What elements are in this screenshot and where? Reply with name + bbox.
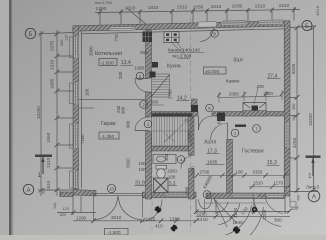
- door arc: hall north door: [200, 28, 214, 42]
- window: top wall hall left: [222, 21, 246, 26]
- fireplace Камин: [243, 103, 266, 117]
- door opening in top wall of hall: [199, 21, 217, 41]
- page edge dark line: [9, 0, 12, 235]
- vent channel block 2x2: [164, 32, 179, 43]
- circled marker 8: [203, 191, 211, 199]
- svg-text:770: 770: [114, 34, 119, 42]
- stairs top edge bar: [152, 114, 193, 117]
- circled marker 4 wc: [177, 156, 185, 164]
- svg-text:7100: 7100: [80, 134, 85, 144]
- terrace step edge line: [205, 202, 267, 204]
- svg-text:1510: 1510: [253, 181, 263, 186]
- top dimension numbers: [96, 3, 290, 12]
- level mark -1.500 boiler: [99, 59, 117, 66]
- dashed axis line vertical: [190, 18, 192, 231]
- window W2: left wall boiler room lower: [70, 83, 79, 104]
- svg-text:1080: 1080: [135, 66, 145, 71]
- svg-text:Кухня-: Кухня-: [167, 64, 182, 70]
- circled marker 1 garage door: [144, 120, 152, 128]
- top dimension chain line: [95, 10, 300, 13]
- outside arc left of porch: [140, 200, 162, 222]
- window W4: left wall garage lower: [70, 171, 79, 188]
- svg-text:2: 2: [142, 102, 145, 107]
- svg-text:100: 100: [168, 175, 176, 180]
- right inner chain 8200: [296, 27, 298, 193]
- interior wall: hall south horizontal: [152, 112, 199, 117]
- svg-text:100: 100: [85, 88, 90, 96]
- window: bottom guest room: [233, 194, 258, 198]
- door arc: hall to living room: [199, 116, 213, 130]
- exterior wall: left: [73, 26, 79, 189]
- svg-text:300: 300: [164, 153, 169, 161]
- area 13.4: [121, 60, 134, 66]
- circled marker 2 kitchen: [140, 101, 148, 109]
- circled marker 2 boiler door: [107, 30, 260, 199]
- grid bubble А right: [308, 190, 320, 202]
- exterior wall: top: [73, 21, 285, 31]
- circled marker 7: [253, 125, 261, 133]
- page left margin shading: [0, 0, 9, 235]
- svg-text:1635: 1635: [207, 159, 218, 164]
- door arc: garage: [135, 117, 149, 131]
- svg-text:Котельная: Котельная: [95, 51, 122, 57]
- black pier at hall corner: [217, 113, 225, 122]
- area 31.9: [135, 181, 148, 187]
- interior wall: hall/guest divider vertical: [227, 140, 233, 194]
- left inner chain: [56, 30, 58, 196]
- dashed axis line vertical 2: [151, 150, 153, 231]
- window: top wall hall right: [259, 20, 283, 25]
- survey marker: [252, 207, 258, 213]
- circled marker 10: [107, 184, 115, 192]
- porch arcs far bottom right: [253, 194, 283, 227]
- svg-text:1920: 1920: [167, 169, 177, 174]
- grid bubble А left: [23, 184, 33, 194]
- area 14.2: [177, 96, 190, 102]
- interior wall: garage east vertical lower: [146, 92, 152, 117]
- black pier kitchen/living: [191, 105, 198, 112]
- window W3: left wall garage upper: [70, 124, 79, 148]
- svg-text:3920: 3920: [126, 158, 131, 168]
- svg-text:2700: 2700: [168, 89, 173, 99]
- window: bottom middle wall: [166, 193, 187, 198]
- left dimension numbers: [36, 35, 69, 194]
- svg-text:10: 10: [109, 186, 115, 191]
- exterior wall: bottom right section: [206, 193, 285, 199]
- exterior wall: right: [284, 21, 290, 196]
- svg-text:980: 980: [185, 186, 190, 194]
- svg-text:±0.000: ±0.000: [205, 69, 219, 74]
- svg-text:-1.500: -1.500: [108, 230, 121, 235]
- svg-text:3150: 3150: [253, 169, 263, 174]
- second window bottom right: [267, 193, 283, 197]
- door arc: hall to guest room: [211, 123, 228, 140]
- circled marker 5 hall door: [206, 104, 214, 112]
- svg-text:Зал: Зал: [233, 58, 243, 64]
- small flue square on boiler wall: [152, 62, 158, 68]
- svg-text:2730: 2730: [200, 170, 210, 175]
- svg-text:100: 100: [236, 169, 244, 174]
- svg-text:чкз 2.100: чкз 2.100: [172, 54, 192, 59]
- exterior wall: bottom middle section: [143, 192, 197, 198]
- svg-text:8: 8: [206, 192, 209, 197]
- circled marker 9 top wall: [211, 30, 219, 38]
- stairs: [152, 113, 193, 146]
- area 27.4: [267, 74, 281, 80]
- entrance stoop bottom left: [60, 192, 73, 197]
- section mark 1 right: [306, 156, 321, 180]
- porch exit door double arcs: [198, 199, 211, 209]
- svg-text:Канал 140х140: Канал 140х140: [168, 48, 200, 53]
- svg-text:200: 200: [118, 71, 123, 79]
- fireplace dimension line: [219, 96, 282, 98]
- svg-text:Холл: Холл: [204, 140, 216, 146]
- level mark ±0.000: [204, 67, 227, 74]
- svg-text:2000: 2000: [187, 131, 192, 141]
- svg-text:Гараж: Гараж: [101, 121, 116, 127]
- left outer chain 10200: [40, 31, 42, 196]
- svg-text:Камин: Камин: [226, 79, 240, 84]
- window: right wall lower: [285, 176, 290, 190]
- left chain horizontal connectors: [38, 33, 73, 34]
- window: right wall middle: [285, 123, 290, 147]
- circled marker 1 guest door: [231, 129, 239, 137]
- interior wall: boiler/kitchen divider vertical: [146, 30, 152, 78]
- porch arc fan bottom right: [214, 199, 264, 240]
- grid bubble Б right: [302, 21, 312, 31]
- svg-text:3000: 3000: [89, 46, 94, 56]
- right outer chain 10200: [313, 27, 315, 190]
- bottom dimension numbers: [53, 203, 298, 229]
- wc fixtures: shower: [154, 178, 169, 193]
- garage double door arcs: [94, 197, 118, 220]
- svg-text:1600: 1600: [263, 91, 273, 96]
- window: top wall boiler room: [110, 26, 135, 31]
- svg-text:1: 1: [147, 122, 150, 127]
- SE corner step lines: [290, 197, 299, 208]
- door arc: boiler room: [135, 79, 149, 93]
- svg-text:2600: 2600: [191, 166, 196, 176]
- svg-text:5,3: 5,3: [169, 181, 176, 186]
- area 17.3: [207, 149, 220, 155]
- left wall inner face line: [81, 31, 83, 188]
- svg-text:1: 1: [234, 131, 237, 136]
- svg-text:4: 4: [180, 157, 183, 162]
- svg-text:1170: 1170: [274, 180, 284, 185]
- svg-text:5: 5: [208, 106, 211, 111]
- bottom chain lines: [57, 212, 96, 214]
- black bar on hall wall: [235, 125, 246, 127]
- level mark -1.350: [99, 132, 119, 139]
- stairs upper flight: [152, 74, 170, 97]
- section mark 1 left: [35, 155, 52, 180]
- area 15.3: [267, 160, 280, 166]
- rotated interior dims: [80, 34, 222, 194]
- interior wall: stairs/wc east vertical: [189, 116, 195, 155]
- svg-text:2: 2: [139, 74, 142, 79]
- wc fixtures: vanity: [153, 155, 176, 164]
- door arc: wc: [181, 155, 195, 169]
- leader line to flue: [127, 8, 148, 26]
- partition line boiler/garage: [79, 99, 146, 101]
- garage door sill lines: [94, 193, 143, 195]
- svg-text:-1.350: -1.350: [101, 134, 114, 139]
- svg-text:7: 7: [255, 126, 258, 131]
- svg-text:200: 200: [257, 84, 265, 89]
- dim 1635: [206, 159, 225, 164]
- svg-text:Гостевая: Гостевая: [242, 149, 264, 155]
- window W1: left wall boiler room: [70, 37, 79, 58]
- black star markers: [155, 206, 241, 234]
- svg-text:380: 380: [140, 50, 148, 55]
- top wall inner face line: [81, 29, 285, 34]
- leader lines to vent block: [171, 40, 188, 58]
- svg-text:900: 900: [126, 120, 131, 128]
- interior wall: under-stairs horizontal: [152, 147, 189, 152]
- svg-text:900: 900: [121, 106, 126, 114]
- svg-text:2000: 2000: [229, 92, 239, 97]
- level mark -1.500 bottom: [105, 229, 129, 236]
- fireplace leader 200: [254, 88, 258, 104]
- svg-text:100: 100: [139, 167, 147, 172]
- right dimension numbers: [291, 63, 313, 201]
- top chain end verticals: [99, 9, 101, 26]
- top chain ticks: [98, 7, 296, 14]
- stairs arrow: [163, 120, 188, 144]
- svg-text:840: 840: [217, 116, 222, 124]
- grid bubble Б left: [23, 21, 320, 202]
- black flue square 2 on wall A: [150, 72, 156, 78]
- wc fixtures: toilet: [156, 166, 167, 179]
- interior wall: kitchen/living divider: [192, 99, 198, 112]
- svg-text:-1.500: -1.500: [101, 60, 114, 65]
- svg-text:100: 100: [139, 161, 147, 166]
- svg-text:9: 9: [213, 31, 216, 36]
- flue block (black) on top wall: [143, 32, 153, 43]
- exterior wall: bottom garage section: [73, 190, 96, 197]
